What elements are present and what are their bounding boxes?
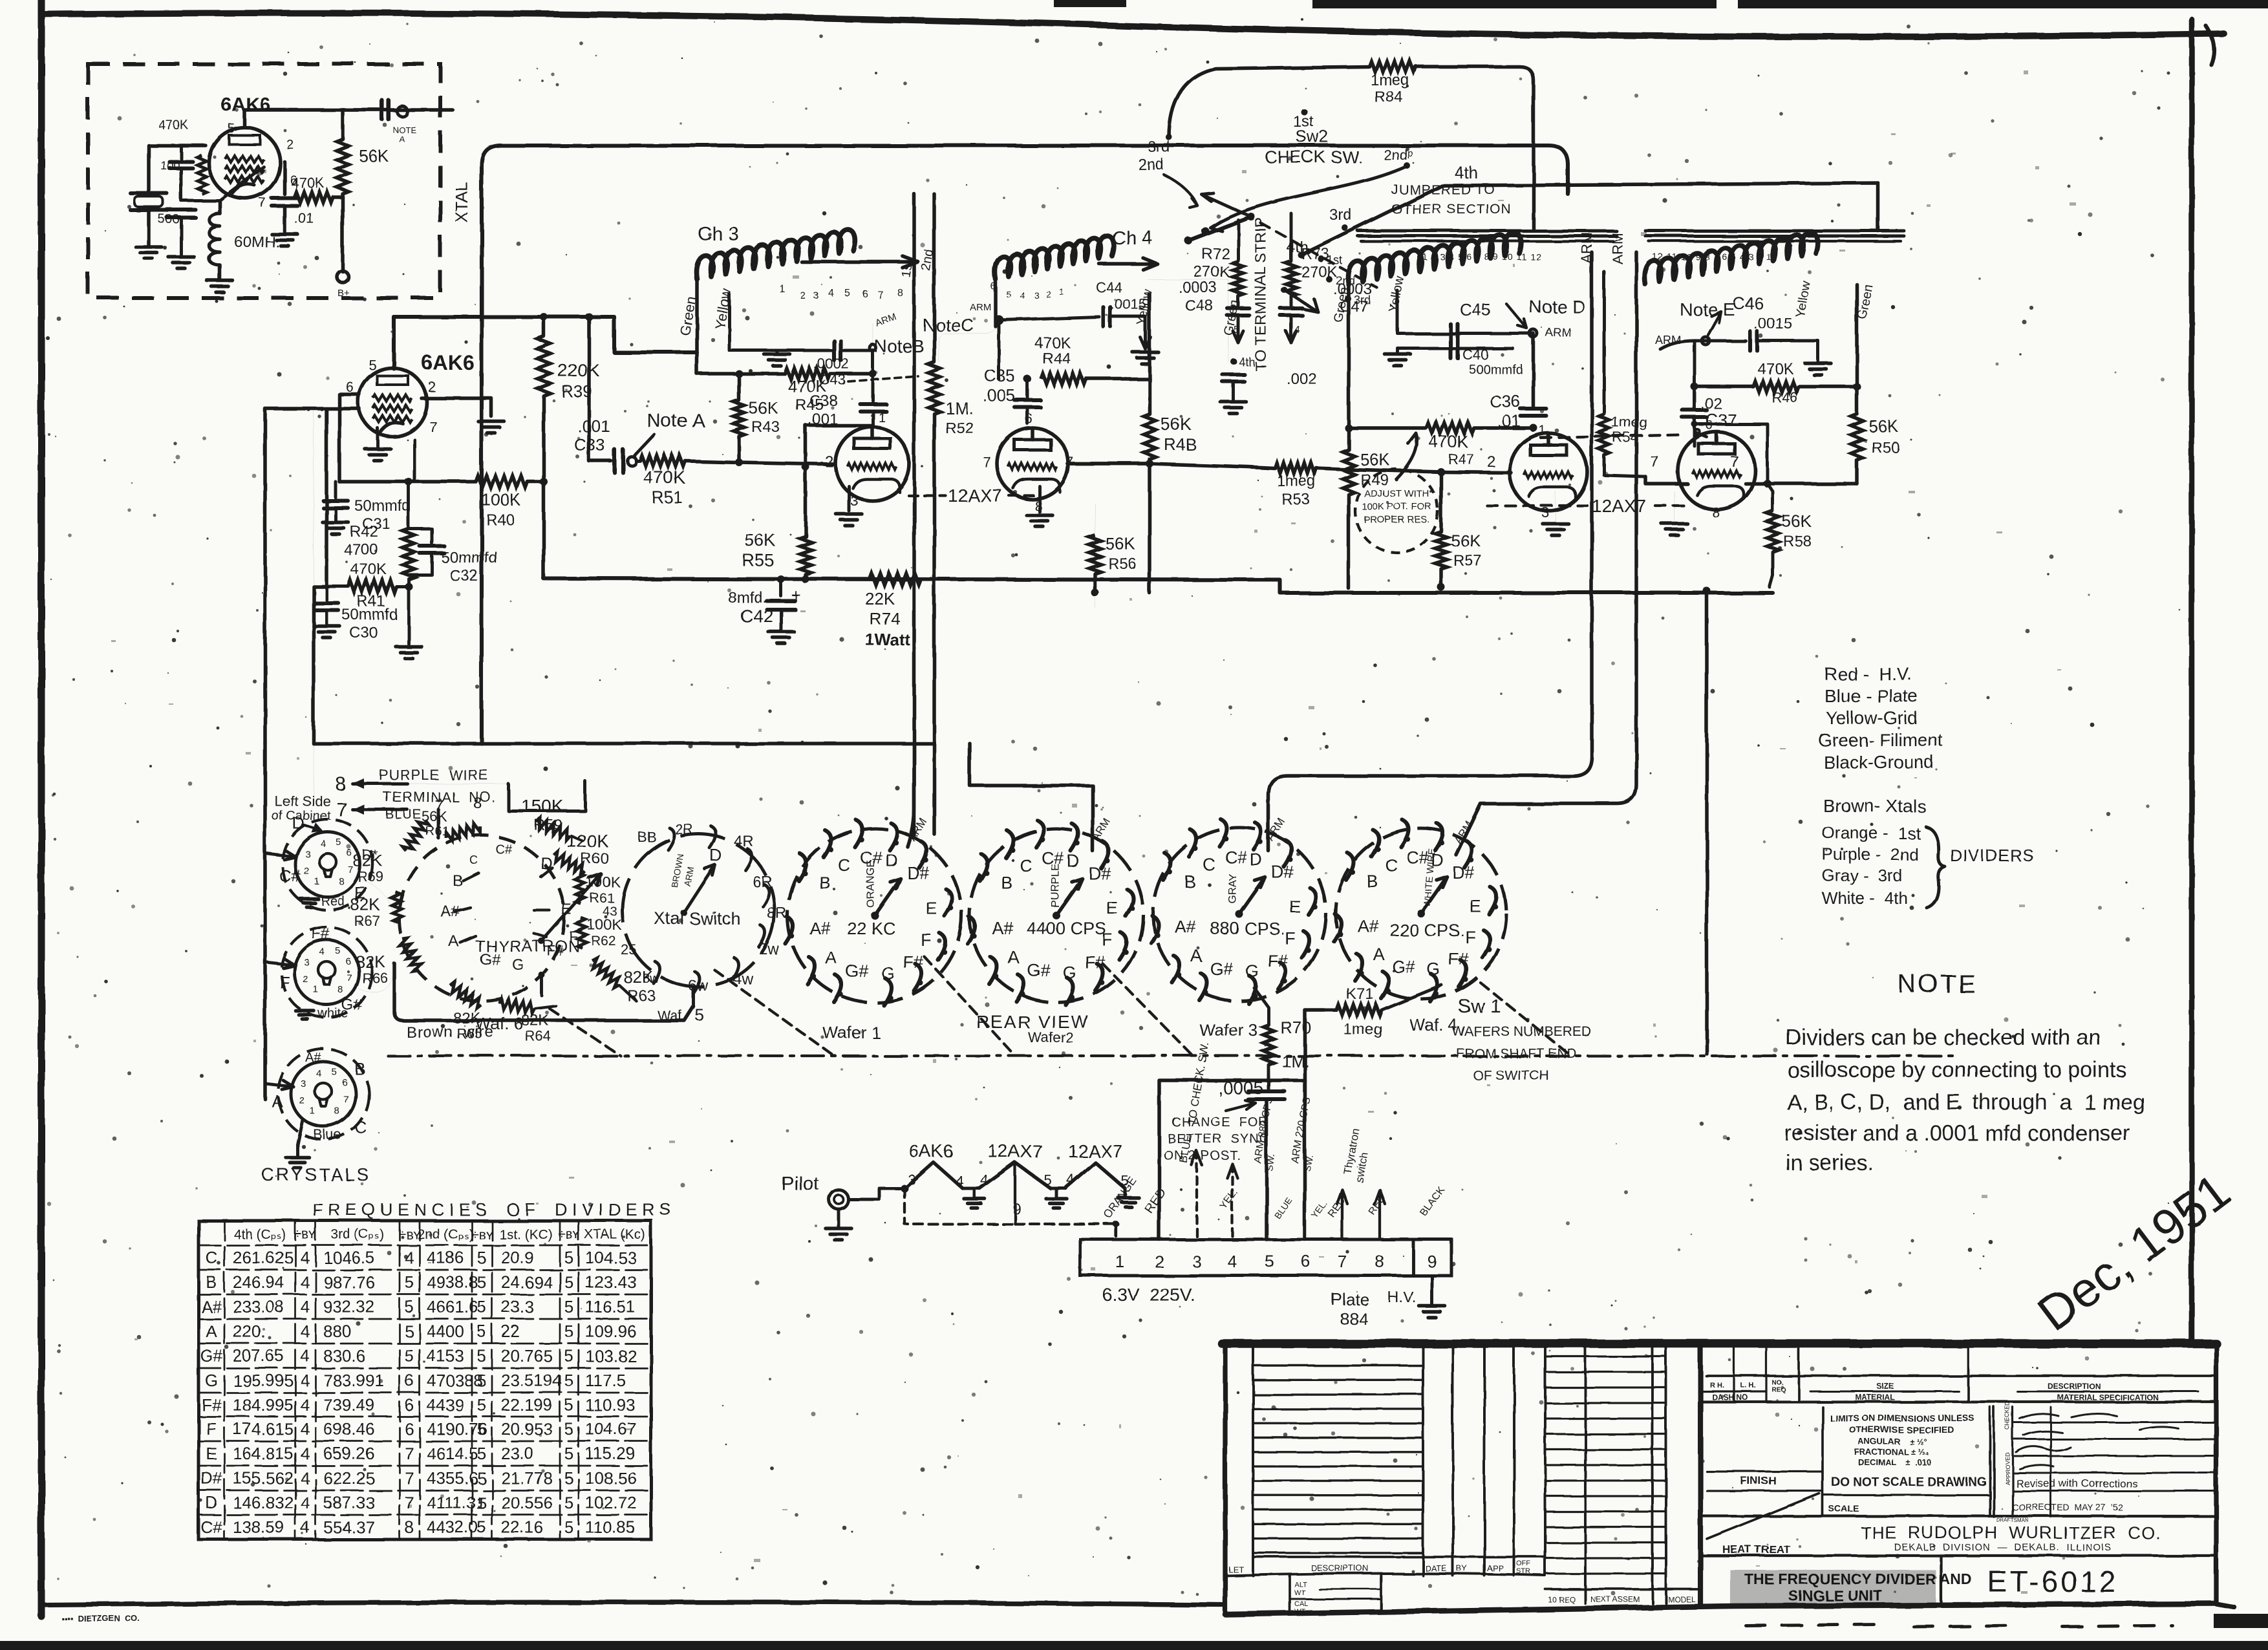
wire C35 junction to grid [1027,423,1028,428]
svg-text:500: 500 [158,212,179,226]
resistor 56K R61t [445,822,482,843]
wire inset crystal gnd [147,210,151,246]
capacitor C36 .01 [1521,407,1546,411]
svg-text:4700: 4700 [344,541,378,559]
svg-text:PURPLE WIRE: PURPLE WIRE [379,767,489,783]
svg-text:H.V.: H.V. [1387,1289,1416,1306]
coil4 loops [1645,232,1818,284]
svg-text:6: 6 [1301,1252,1311,1271]
svg-text:C44: C44 [1096,279,1122,295]
svg-text:932.32: 932.32 [323,1297,375,1316]
inset out terminal [397,106,407,116]
svg-text:Plate: Plate [1331,1289,1369,1309]
svg-text:4: 4 [301,1517,310,1537]
svg-text:2: 2 [825,453,833,471]
svg-text:R62: R62 [591,934,616,948]
dashed tubes2 upper [1541,434,1682,438]
node ARM D [1530,330,1537,337]
svg-text:2nd (Cₚₛ): 2nd (Cₚₛ) [418,1227,474,1242]
coil Ch3 [696,230,855,279]
wire Ch3 left leg [695,279,699,374]
svg-text:B: B [206,1272,217,1292]
op tube U-inset [209,127,280,198]
svg-text:C: C [838,855,851,875]
svg-text:5: 5 [477,1444,486,1463]
svg-text:C40: C40 [1462,347,1488,363]
svg-text:CHECKED: CHECKED [2004,1401,2011,1430]
svg-text:8: 8 [1712,504,1720,520]
svg-text:DESCRIPTION: DESCRIPTION [2048,1382,2101,1391]
svg-text:8: 8 [335,773,346,795]
svg-text:220 CPS.: 220 CPS. [1390,921,1465,940]
svg-text:4th: 4th [1239,356,1255,369]
svg-text:5: 5 [564,1493,573,1512]
svg-text:Xtal Switch: Xtal Switch [654,909,741,928]
strip wire 8 [1378,1190,1381,1239]
svg-text:PROPER RES.: PROPER RES. [1364,514,1430,525]
svg-text:5: 5 [1043,1172,1051,1188]
svg-text:CHECK SW.: CHECK SW. [1265,147,1363,167]
ground coil3 yellow [1396,348,1400,352]
svg-text:164.815: 164.815 [233,1444,294,1463]
capacitor 500 inset [167,208,195,211]
svg-text:.0015: .0015 [1753,315,1792,332]
svg-text:109.96: 109.96 [585,1322,637,1341]
svg-text:8: 8 [405,1517,414,1537]
node dot 2621-656 [1691,421,1698,427]
resistor 56K R56 body [1089,535,1101,574]
svg-text:3: 3 [305,849,310,860]
svg-text:5: 5 [477,1419,486,1439]
svg-text:270K: 270K [1193,263,1230,281]
crystal socket A2 [281,927,372,1018]
right header grid [1700,1347,1703,1603]
middle lined block [1584,1347,1587,1603]
wire Ch4 left leg [939,279,996,362]
svg-text:24.694: 24.694 [501,1272,553,1292]
resistor 470K R41 [326,585,348,588]
svg-text:ARM: ARM [1545,326,1571,339]
svg-text:1: 1 [313,984,318,995]
node 4th lower [1230,358,1237,365]
wire SW2 arm A [1188,217,1251,241]
svg-text:5: 5 [1006,289,1011,299]
svg-text:110.85: 110.85 [585,1517,636,1537]
svg-text:E: E [206,1444,217,1463]
svg-text:ARM: ARM [1609,232,1625,264]
svg-text:7: 7 [983,454,990,470]
dashed circle adjust note [1355,469,1438,552]
svg-text:4: 4 [301,1371,310,1390]
svg-text:.001: .001 [577,416,610,436]
wire inset pin7 diag [220,167,264,200]
coil3 top lines [1358,230,1616,233]
svg-text:1 2 3 4 5 6 7 8 9 10 11 12: 1 2 3 4 5 6 7 8 9 10 11 12 [1422,252,1542,262]
svg-text:C33: C33 [574,435,605,455]
capacitor C37 .02 [1682,408,1707,412]
svg-text:.0003: .0003 [1178,279,1217,296]
svg-text:1046.5: 1046.5 [323,1248,375,1267]
svg-text:Black-Ground: Black-Ground [1823,752,1934,772]
svg-text:B: B [1001,873,1012,892]
svg-text:5: 5 [477,1371,486,1390]
svg-text:R57: R57 [1453,552,1482,570]
svg-text:C37: C37 [1706,410,1737,429]
svg-text:R52: R52 [945,420,974,437]
svg-text:6AK6: 6AK6 [422,351,475,374]
svg-text:8: 8 [339,876,344,887]
node dot 1208-896 [777,575,785,583]
wafer W6 circle [399,835,564,1001]
svg-text:R58: R58 [1783,533,1812,550]
svg-text:B: B [1184,872,1195,891]
wire top long bus H1 [482,145,1568,744]
title cell divider [1940,1556,1942,1606]
svg-text:DEKALB DIVISION — DEKALB.: DEKALB DIVISION — DEKALB. ILLINOIS [1894,1542,2112,1553]
svg-text:4: 4 [405,1248,414,1267]
wire SW2 arm A arrow [1201,194,1251,217]
svg-text:4: 4 [980,1172,988,1188]
svg-text:▪▪▪▪ DIETZGEN CO.: ▪▪▪▪ DIETZGEN CO. [61,1614,140,1623]
svg-text:5: 5 [564,1248,573,1267]
resistor 470K R46 [1753,381,1799,392]
svg-text:4th (Cₚₛ): 4th (Cₚₛ) [233,1227,286,1242]
dashed diag W4 [1481,983,1571,1056]
svg-text:ARM: ARM [970,302,991,313]
svg-text:R H.: R H. [1710,1382,1724,1389]
svg-text:5: 5 [335,945,340,956]
svg-text:ON 2 POST.: ON 2 POST. [1164,1149,1241,1163]
svg-text:E: E [1106,898,1118,917]
capacitor C35 .005 [1026,408,1029,423]
svg-text:F R E Q U E N C I E S O F: F R E Q U E N C I E S O F D I V I D E R … [312,1200,671,1219]
svg-text:5: 5 [477,1395,486,1415]
svg-text:ADJUST WITH: ADJUST WITH [1364,488,1429,499]
coil 60MH inset [218,200,222,213]
wire box left [1159,1080,1305,1239]
svg-text:6.3V 225V.: 6.3V 225V. [1102,1285,1195,1305]
node dot 1246-896 [802,575,809,583]
svg-text:R63: R63 [627,987,656,1005]
svg-text:R67: R67 [354,913,380,929]
wire C37 col [1693,341,1696,409]
svg-text:6: 6 [405,1395,414,1415]
wire coil4 ARM drop [1705,336,1706,341]
svg-text:25: 25 [621,941,636,958]
svg-text:4: 4 [301,1248,310,1267]
svg-text:HEAT TREAT: HEAT TREAT [1722,1543,1791,1556]
svg-text:56K: 56K [1161,414,1192,434]
svg-text:20.9: 20.9 [501,1248,534,1267]
svg-text:D#: D# [1088,864,1111,883]
capacitor .01 inset [283,162,286,194]
dashed diag W6 [550,1009,621,1056]
svg-text:.002: .002 [1287,370,1317,388]
svg-text:1st: 1st [1327,253,1342,266]
svg-text:12 11 10 9 8 7 6 5 4 3 2 1: 12 11 10 9 8 7 6 5 4 3 2 1 [1653,252,1772,262]
wire R44 to Ch4 right leg [1148,294,1151,379]
svg-text:4: 4 [301,1346,310,1366]
wire R39col to bus2 [542,482,546,579]
svg-text:56K: 56K [749,398,779,418]
svg-text:B: B [1367,872,1378,892]
svg-text:white: white [317,1007,348,1021]
wire W1 feed [908,744,914,847]
svg-text:8: 8 [334,1106,339,1117]
resistor 56K R58 [1772,484,1773,511]
svg-text:NoteC: NoteC [923,315,974,335]
left border line [38,0,45,1616]
dashed tubes2 lower [1487,504,1587,507]
capacitor C-inset .001 [380,100,384,120]
svg-text:Gray - 3rd: Gray - 3rd [1822,866,1902,885]
wire tube c grid row [1349,469,1511,473]
strip wire 2 [1159,1086,1160,1239]
svg-text:21.778: 21.778 [501,1468,553,1488]
capacitor C48 .0003 [1227,306,1249,310]
resistor 82K R66 [398,936,423,973]
svg-text:470K: 470K [1034,334,1071,352]
svg-text:4: 4 [828,288,834,299]
svg-text:2: 2 [1155,1252,1164,1271]
svg-text:7: 7 [405,1444,414,1463]
strip wire 1 [1115,1224,1117,1239]
svg-text:C#: C# [1225,848,1247,867]
svg-text:698.46: 698.46 [323,1419,375,1439]
svg-text:6: 6 [347,848,352,859]
wire bus down right [1705,591,1709,1054]
svg-text:22: 22 [501,1322,520,1341]
wire SW2 top bus with R84 [1169,67,1369,137]
svg-text:SCALE: SCALE [1828,1503,1859,1514]
svg-text:4111.31: 4111.31 [427,1493,485,1512]
wire inset 500 gnd [180,217,183,255]
svg-text:C: C [1203,855,1215,874]
resistor R73 270K [1290,213,1293,261]
wire Ch4 right green [1148,279,1228,362]
wire armD arrow [1506,304,1527,328]
coil Ch4 arrow [1099,262,1157,266]
svg-text:A#: A# [1175,917,1196,937]
svg-text:23.5194: 23.5194 [501,1371,562,1390]
svg-text:Red: Red [321,894,345,908]
wire bus2 long [544,579,1773,593]
svg-text:B: B [818,873,830,892]
resistor 82K R64 [498,998,536,1014]
svg-text:20.953: 20.953 [501,1419,553,1439]
svg-text:WAFERS NUMBERED: WAFERS NUMBERED [1452,1024,1591,1039]
svg-text:in series.: in series. [1786,1151,1874,1175]
svg-text:÷ʙʏ: ÷ʙʏ [558,1227,580,1242]
svg-text:4186: 4186 [427,1248,464,1267]
svg-text:Pilot: Pilot [781,1173,819,1194]
wire stub s3 [265,1084,294,1087]
svg-text:23.0: 23.0 [501,1444,534,1463]
svg-text:FROM SHAFT END: FROM SHAFT END [1456,1046,1576,1061]
svg-text:50mmfd: 50mmfd [441,549,497,566]
svg-text:R43: R43 [751,418,780,436]
svg-text:A: A [206,1322,217,1341]
svg-text:4355.6: 4355.6 [427,1468,478,1488]
wire Ch4 left drop [994,281,998,327]
wire grid right to gnd [422,398,491,416]
svg-text:6: 6 [345,956,350,967]
wire left tall down [265,409,326,744]
bottom scan bar [0,1641,2268,1650]
svg-text:R60: R60 [581,850,609,868]
node dot 632-745 [405,478,412,486]
revision table left [1252,1347,1254,1576]
svg-text:783.991: 783.991 [323,1371,384,1390]
svg-text:R51: R51 [652,487,683,507]
svg-text:5: 5 [564,1419,573,1439]
svg-text:4439: 4439 [427,1395,464,1415]
svg-text:F: F [279,972,290,992]
resistor 82K R67 [391,892,402,923]
dashed SW2 diag [1261,223,1377,288]
inset B+ terminal [337,271,348,283]
capacitor .002 [1223,372,1245,376]
svg-text:WT: WT [1294,1589,1305,1597]
ground inset coil [207,279,233,283]
svg-text:5: 5 [1234,325,1239,336]
svg-text:659.26: 659.26 [323,1444,375,1463]
svg-text:D#: D# [907,863,930,883]
svg-text:3: 3 [813,290,818,301]
coil3 loops [1348,232,1521,284]
svg-text:116.51: 116.51 [585,1297,636,1316]
svg-text:987.76: 987.76 [323,1272,375,1292]
capacitor C38 .001 [860,402,886,405]
svg-text:123.43: 123.43 [585,1272,637,1292]
svg-text:5: 5 [477,1517,486,1537]
svg-text:A#: A# [201,1297,222,1316]
wire R71 left drop [1305,1010,1324,1239]
node dot 2229-730 [1437,468,1445,476]
dashed diag W2 [1102,963,1193,1056]
svg-text:155.562: 155.562 [233,1468,294,1488]
arm W6 arrow [542,874,601,941]
svg-text:2: 2 [428,379,436,395]
svg-text:622.25: 622.25 [323,1468,375,1488]
svg-text:C: C [1020,856,1032,875]
svg-text:D*: D* [362,847,378,863]
coil Ch3 arrow [802,260,918,264]
svg-text:osilloscope by connecting to p: osilloscope by connecting to points [1787,1058,2126,1082]
svg-text:3rd (Cₚₛ): 3rd (Cₚₛ) [331,1227,384,1242]
svg-text:4: 4 [319,947,325,958]
svg-text:R61: R61 [590,891,615,906]
wire R40 row [339,480,476,484]
wire 8 col [508,781,585,811]
svg-text:7: 7 [429,419,437,435]
svg-text:resister and a .0001 mfd conde: resister and a .0001 mfd condenser [1784,1121,2130,1146]
svg-text:4400: 4400 [427,1322,464,1341]
svg-text:B: B [453,872,463,890]
svg-text:100K POT. FOR: 100K POT. FOR [1362,501,1432,512]
op tube 12AX7 d [1678,432,1755,509]
svg-text:1meg: 1meg [1371,72,1409,89]
resistor 56K R43 [737,374,741,400]
resistor 150K R59 [535,818,572,841]
svg-text:.01: .01 [294,210,314,226]
svg-text:Red - H.V.: Red - H.V. [1824,664,1912,684]
svg-text:B: B [354,1059,365,1078]
svg-text:Green- Filiment: Green- Filiment [1818,730,1943,750]
svg-text:F#: F# [312,925,330,943]
wire h2-h3 [1051,1187,1065,1190]
svg-text:Purple - 2nd: Purple - 2nd [1822,844,1918,864]
svg-text:C32: C32 [449,567,478,584]
resistor 56K R56 [1095,593,1096,608]
wafer W3 880 [1153,828,1326,1001]
svg-text:9: 9 [1428,1252,1437,1271]
svg-text:White - 4th: White - 4th [1822,888,1908,908]
ground strip [1431,1276,1434,1305]
svg-text:4: 4 [301,1395,310,1415]
node dot 2086-662 [1345,424,1353,432]
svg-text:2: 2 [304,866,309,877]
wafer W4 220 [1336,828,1506,999]
svg-text:470K: 470K [350,561,387,578]
svg-text:4: 4 [301,1322,310,1341]
wire h3 end [1124,1188,1127,1196]
wire armC row [999,317,1099,320]
svg-text:470K: 470K [643,467,686,487]
wire inset top to cap [343,108,379,112]
svg-text:7: 7 [878,290,884,301]
svg-text:OTHERWISE SPECIFIED: OTHERWISE SPECIFIED [1849,1424,1954,1435]
svg-text:10 REQ: 10 REQ [1548,1595,1576,1604]
svg-text:+: + [791,586,801,605]
svg-text:Wafer 1: Wafer 1 [822,1023,881,1042]
wire ARM2 long [1456,252,1636,855]
svg-text:DASH NO: DASH NO [1712,1393,1748,1402]
svg-text:MATERIAL SPECIFICATION: MATERIAL SPECIFICATION [2057,1393,2158,1402]
wire SW2 big curl [1210,167,1406,228]
svg-text:5: 5 [336,837,341,848]
wire plate a to R55col [806,425,873,467]
node dot 2372-662 [1530,424,1537,432]
node G W6 [539,972,545,978]
svg-text:8mfd.: 8mfd. [728,589,767,606]
svg-text:104.67: 104.67 [585,1419,637,1439]
svg-text:D#: D# [200,1468,222,1488]
svg-text:APP: APP [1487,1563,1504,1573]
crystal inset [131,191,167,195]
svg-text:BLUE: BLUE [385,808,422,822]
dashed heater bottom [904,1188,1116,1239]
wire 1st vertical [912,194,916,834]
strip wire 3 [1195,1151,1198,1239]
svg-text:8: 8 [337,984,343,995]
capacitor 50mmfd C32 [409,529,432,543]
svg-text:OF SWITCH: OF SWITCH [1473,1068,1549,1083]
noise speckles [736,255,740,259]
svg-text:C: C [1385,855,1398,875]
top scan bar right [1312,0,1717,8]
svg-text:4614.5: 4614.5 [427,1444,478,1463]
svg-text:4: 4 [1228,1252,1237,1271]
svg-text:R47: R47 [1448,451,1474,467]
svg-text:1: 1 [878,411,885,425]
strip wire 7 [1341,1190,1343,1239]
svg-text:A: A [1373,945,1385,964]
svg-text:4R: 4R [733,832,753,850]
svg-text:4400 CPS: 4400 CPS [1027,919,1106,938]
svg-text:A#: A# [305,1051,321,1065]
svg-text:22 KC: 22 KC [847,919,895,938]
